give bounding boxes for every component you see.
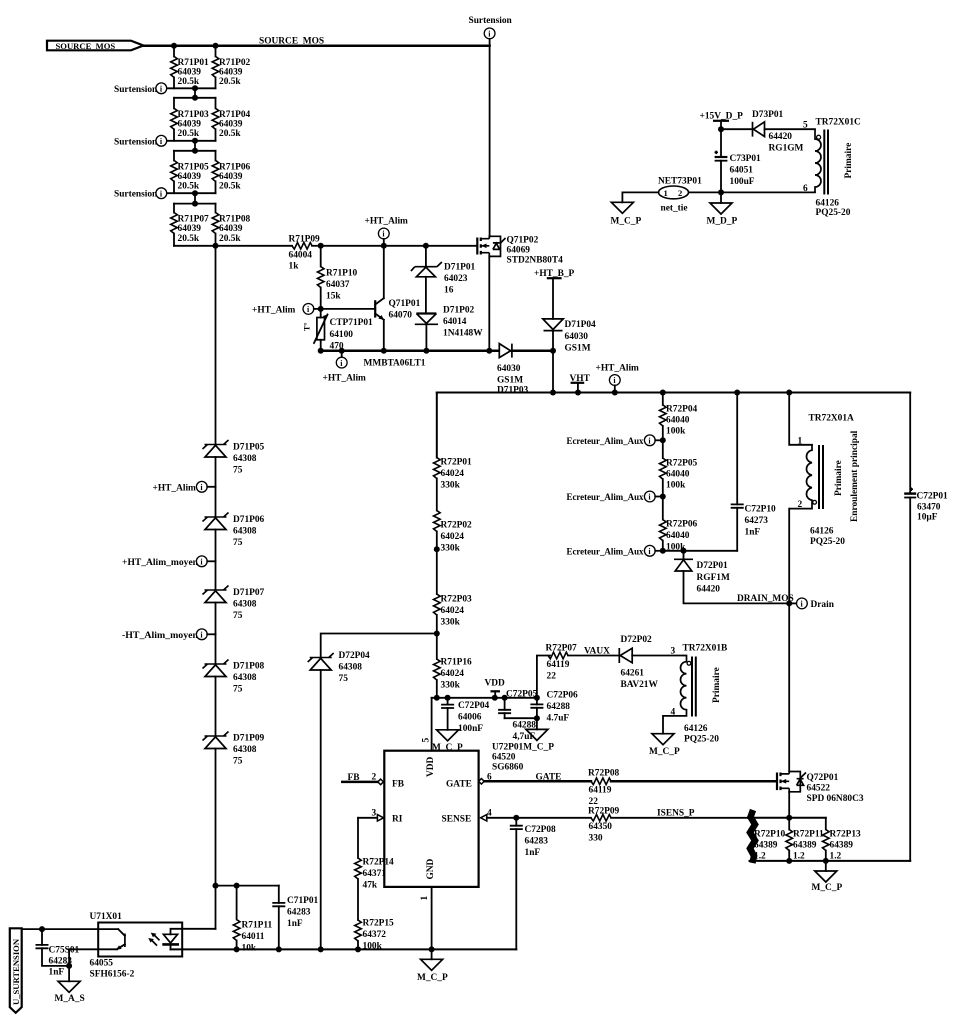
- svg-text:64308: 64308: [339, 663, 363, 673]
- svg-text:64024: 64024: [441, 606, 465, 616]
- svg-text:R71P16: R71P16: [441, 658, 473, 668]
- wire net tie left: [622, 192, 658, 202]
- ground M_C_P bottom: [417, 949, 448, 983]
- svg-text:Primaire: Primaire: [834, 460, 844, 496]
- zener D72P04: [308, 651, 370, 949]
- node Surtension 1: [114, 83, 167, 95]
- svg-text:NET73P01: NET73P01: [658, 177, 702, 187]
- diode D72P02: [619, 635, 683, 690]
- wire pair3 top bar: [174, 150, 216, 152]
- svg-text:C72P05: C72P05: [506, 690, 538, 700]
- svg-text:2: 2: [372, 773, 377, 783]
- svg-text:C75S01: C75S01: [49, 946, 80, 956]
- svg-text:1nF: 1nF: [525, 848, 541, 858]
- svg-text:Surtension: Surtension: [114, 137, 158, 147]
- svg-text:2: 2: [678, 188, 682, 198]
- node +HT_Alim top (Q71P02 area): [365, 217, 409, 246]
- zener D71P08: [203, 660, 265, 737]
- svg-text:TR72X01B: TR72X01B: [683, 644, 728, 654]
- svg-text:64069: 64069: [507, 246, 531, 256]
- wire Q72P01 source: [788, 792, 790, 818]
- zener D71P05: [203, 440, 265, 517]
- svg-text:64389: 64389: [793, 841, 817, 851]
- diode D71P03: [497, 344, 553, 396]
- svg-text:SOURCE_MOS: SOURCE_MOS: [56, 41, 116, 51]
- svg-text:D71P07: D71P07: [233, 588, 265, 598]
- svg-text:R72P13: R72P13: [830, 830, 862, 840]
- port SOURCE_MOS: [47, 41, 143, 51]
- svg-text:+HT_Alim: +HT_Alim: [252, 306, 296, 316]
- svg-text:100uF: 100uF: [730, 177, 755, 187]
- svg-text:R72P08: R72P08: [588, 769, 620, 779]
- svg-text:C72P01: C72P01: [917, 492, 949, 502]
- svg-text:64308: 64308: [233, 527, 257, 537]
- ground M_C_P under TR72X01B: [649, 716, 680, 757]
- capacitor C75S01: [36, 929, 80, 977]
- wire gate Q71P02: [321, 245, 477, 247]
- svg-text:1nF: 1nF: [49, 968, 65, 978]
- svg-text:R71P08: R71P08: [219, 215, 251, 225]
- svg-text:20.5k: 20.5k: [178, 77, 200, 87]
- wire trunk pin1: [789, 393, 812, 445]
- resistor R72P06: [660, 520, 698, 553]
- svg-text:64055: 64055: [90, 959, 114, 969]
- resistor R72P15: [355, 919, 394, 952]
- svg-text:Ecreteur_Alim_Aux: Ecreteur_Alim_Aux: [567, 493, 644, 503]
- svg-text:M_D_P: M_D_P: [707, 217, 738, 227]
- svg-text:75: 75: [233, 538, 243, 548]
- svg-text:1k: 1k: [289, 262, 300, 272]
- wire VDD rail: [432, 697, 537, 699]
- wire VHT rail: [437, 392, 910, 394]
- svg-text:R72P15: R72P15: [363, 919, 395, 929]
- svg-text:64039: 64039: [178, 120, 202, 130]
- resistor R71P02: [212, 46, 250, 89]
- svg-text:STD2NB80T4: STD2NB80T4: [507, 256, 564, 266]
- svg-text:64037: 64037: [326, 280, 350, 290]
- svg-text:64522: 64522: [807, 784, 831, 794]
- node C72P08 tap: [513, 815, 519, 821]
- svg-text:75: 75: [233, 611, 243, 621]
- svg-text:net_tie: net_tie: [661, 204, 688, 214]
- pin SENSE wire: [481, 809, 591, 822]
- svg-text:D72P01: D72P01: [697, 561, 729, 571]
- svg-text:75: 75: [233, 757, 243, 767]
- svg-text:M_A_S: M_A_S: [55, 994, 85, 1004]
- svg-text:Surtension: Surtension: [114, 85, 158, 95]
- svg-text:64039: 64039: [219, 68, 243, 78]
- svg-text:64039: 64039: [178, 172, 202, 182]
- resistor R71P01: [171, 46, 209, 89]
- svg-text:Q72P01: Q72P01: [807, 773, 839, 783]
- svg-text:PQ25-20: PQ25-20: [810, 537, 845, 547]
- wire ecreteur bottom: [663, 550, 737, 552]
- svg-text:64011: 64011: [242, 932, 265, 942]
- ground M_C_P under C72P04: [432, 730, 463, 753]
- svg-text:R72P11: R72P11: [793, 830, 824, 840]
- svg-text:FB: FB: [348, 773, 360, 783]
- svg-text:M_C_P: M_C_P: [649, 747, 680, 757]
- svg-text:64261: 64261: [621, 669, 645, 679]
- svg-text:64420: 64420: [769, 132, 793, 142]
- svg-text:64030: 64030: [565, 332, 589, 342]
- svg-text:U71X01: U71X01: [90, 912, 123, 922]
- svg-text:D71P08: D71P08: [233, 662, 265, 672]
- capacitor C72P08: [510, 818, 556, 950]
- wire port to opto: [22, 928, 119, 930]
- svg-text:RG1GM: RG1GM: [769, 144, 804, 154]
- svg-text:64004: 64004: [289, 251, 313, 261]
- ground M_A_S: [55, 949, 85, 1004]
- resistor R72P01: [434, 458, 473, 511]
- svg-text:Ecreteur_Alim_Aux: Ecreteur_Alim_Aux: [567, 437, 644, 447]
- svg-text:C72P10: C72P10: [745, 505, 777, 515]
- op-amp U72P01 box: [384, 751, 478, 887]
- svg-text:D71P05: D71P05: [233, 443, 265, 453]
- svg-text:D71P06: D71P06: [233, 515, 265, 525]
- power VDD: [485, 679, 506, 698]
- svg-text:64283: 64283: [525, 837, 549, 847]
- wire cap bottoms: [505, 717, 537, 719]
- svg-text:+HT_Alim: +HT_Alim: [153, 483, 197, 493]
- svg-text:64023: 64023: [444, 274, 468, 284]
- svg-text:1: 1: [420, 896, 430, 901]
- svg-text:R71P02: R71P02: [219, 58, 251, 68]
- svg-text:22: 22: [589, 797, 599, 807]
- resistor R71P11: [233, 886, 272, 954]
- svg-text:64126: 64126: [684, 724, 708, 734]
- wire Q71P02 source down: [488, 256, 490, 350]
- svg-text:R71P07: R71P07: [178, 215, 210, 225]
- node +HT_Alim_moyen: [122, 556, 216, 568]
- node Surtension 3: [114, 188, 167, 200]
- svg-text:D71P01: D71P01: [444, 263, 476, 273]
- svg-text:VAUX: VAUX: [584, 647, 610, 657]
- svg-text:Enroulement principal: Enroulement principal: [850, 430, 860, 522]
- wire pin 5 riser: [431, 698, 433, 751]
- resistor R72P10 (bold): [750, 810, 786, 863]
- ground M_C_P net tie: [611, 202, 642, 226]
- capacitor C73P01: [715, 129, 762, 192]
- svg-text:10k: 10k: [242, 944, 257, 954]
- svg-text:64119: 64119: [589, 786, 612, 796]
- resistor R72P13: [823, 818, 862, 862]
- svg-text:64308: 64308: [233, 745, 257, 755]
- svg-text:R72P06: R72P06: [666, 520, 698, 530]
- svg-text:R72P10: R72P10: [754, 830, 786, 840]
- wire sense top bar: [748, 817, 826, 819]
- svg-text:4: 4: [487, 809, 492, 819]
- node R71P09/R71P10: [318, 243, 324, 249]
- svg-text:64039: 64039: [219, 120, 243, 130]
- svg-text:1: 1: [798, 437, 803, 447]
- svg-text:D73P01: D73P01: [752, 110, 784, 120]
- pin FB stub: [342, 773, 383, 785]
- svg-text:VDD: VDD: [485, 679, 506, 689]
- capacitor C71P01: [272, 886, 318, 950]
- svg-text:D71P03: D71P03: [497, 386, 529, 396]
- resistor R72P08: [588, 769, 777, 808]
- wire R71P11 top rail: [216, 885, 279, 887]
- svg-text:75: 75: [233, 685, 243, 695]
- svg-text:R72P03: R72P03: [441, 595, 473, 605]
- resistor R71P10: [317, 246, 357, 309]
- svg-text:GATE: GATE: [446, 780, 472, 790]
- svg-text:64024: 64024: [441, 669, 465, 679]
- svg-text:R71P03: R71P03: [178, 110, 210, 120]
- svg-text:SOURCE MOS: SOURCE MOS: [259, 37, 324, 47]
- node Ecreteur_Alim_Aux 2: [567, 491, 666, 503]
- svg-text:+HT_Alim: +HT_Alim: [323, 374, 367, 384]
- svg-text:20.5k: 20.5k: [219, 77, 241, 87]
- node Surtension 2: [114, 135, 167, 147]
- svg-text:C72P06: C72P06: [547, 691, 579, 701]
- node +HT_Alim chain: [153, 481, 216, 493]
- svg-text:1: 1: [664, 188, 668, 198]
- svg-text:R72P14: R72P14: [363, 858, 395, 868]
- svg-text:100k: 100k: [666, 481, 686, 491]
- svg-text:Surtension: Surtension: [114, 190, 158, 200]
- svg-text:SENSE: SENSE: [442, 815, 472, 825]
- svg-text:Primaire: Primaire: [712, 667, 722, 703]
- net tie NET73P01: [658, 177, 702, 214]
- svg-text:64389: 64389: [830, 841, 854, 851]
- svg-text:Q71P01: Q71P01: [389, 299, 421, 309]
- svg-text:47k: 47k: [363, 881, 378, 891]
- resistor R72P02: [434, 511, 473, 554]
- wire pair4 bottom bar: [174, 245, 216, 247]
- svg-text:75: 75: [233, 466, 243, 476]
- svg-text:16: 16: [444, 286, 454, 296]
- svg-text:64308: 64308: [233, 600, 257, 610]
- svg-text:20.5k: 20.5k: [178, 234, 200, 244]
- wire link pair1-pair2: [194, 88, 196, 98]
- svg-text:64070: 64070: [389, 311, 413, 321]
- svg-text:3: 3: [671, 647, 676, 657]
- svg-text:+HT_Alim_moyen: +HT_Alim_moyen: [122, 558, 199, 568]
- power VHT: [570, 374, 591, 393]
- svg-text:GS1M: GS1M: [497, 376, 523, 386]
- svg-text:TR72X01C: TR72X01C: [816, 118, 862, 128]
- svg-text:M_C_P: M_C_P: [611, 217, 642, 227]
- svg-text:U72P01M_C_P: U72P01M_C_P: [492, 743, 554, 753]
- svg-text:Drain: Drain: [811, 600, 835, 610]
- transistor Q71P01: [375, 246, 420, 351]
- svg-text:GND: GND: [426, 858, 436, 879]
- resistor R71P03: [171, 98, 209, 141]
- svg-text:PQ25-20: PQ25-20: [684, 735, 719, 745]
- svg-text:4,7uF: 4,7uF: [513, 732, 536, 742]
- svg-text:64006: 64006: [458, 713, 482, 723]
- svg-text:+HT_Alim: +HT_Alim: [596, 364, 640, 374]
- svg-text:T°: T°: [303, 322, 312, 331]
- wire pair1 bottom bar: [167, 87, 216, 89]
- svg-text:5: 5: [803, 121, 808, 131]
- node +HT_Alim left: [252, 304, 321, 316]
- svg-text:R71P06: R71P06: [219, 163, 251, 173]
- svg-text:64039: 64039: [178, 224, 202, 234]
- svg-text:C72P08: C72P08: [525, 825, 557, 835]
- wire chain column upper: [215, 246, 217, 445]
- svg-text:D71P02: D71P02: [443, 306, 475, 316]
- svg-text:RGF1M: RGF1M: [697, 573, 730, 583]
- resistor R71P08: [212, 204, 250, 246]
- svg-text:D71P04: D71P04: [565, 320, 597, 330]
- pin GATE wire: [479, 773, 591, 785]
- svg-text:R72P07: R72P07: [546, 644, 578, 654]
- optocoupler U71X01: [69, 912, 215, 980]
- capacitor C72P01: [904, 393, 948, 861]
- power +HT_B_P: [534, 269, 575, 319]
- capacitor C72P05: [498, 690, 537, 743]
- diode D72P01: [674, 551, 789, 604]
- diode D71P04: [543, 319, 596, 393]
- resistor R72P14: [355, 818, 394, 920]
- svg-text:4: 4: [671, 708, 676, 718]
- svg-text:1nF: 1nF: [745, 528, 761, 538]
- wire branch to D72P04: [321, 634, 437, 658]
- wire sense bottom bar: [750, 860, 911, 862]
- svg-text:64420: 64420: [697, 585, 721, 595]
- svg-text:MMBTA06LT1: MMBTA06LT1: [364, 359, 426, 369]
- resistor R71P16: [434, 634, 473, 698]
- svg-text:64371: 64371: [363, 869, 387, 879]
- svg-text:C73P01: C73P01: [730, 154, 762, 164]
- wire link pair2-pair3: [194, 141, 196, 151]
- wire base Q71P01: [321, 308, 376, 310]
- zener D71P01: [411, 246, 476, 314]
- svg-text:64119: 64119: [547, 660, 570, 670]
- svg-text:R71P09: R71P09: [289, 235, 321, 245]
- svg-text:64126: 64126: [810, 527, 834, 537]
- svg-text:20.5k: 20.5k: [178, 129, 200, 139]
- resistor R71P09: [289, 235, 321, 272]
- svg-text:BAV21W: BAV21W: [621, 680, 659, 690]
- svg-text:D71P09: D71P09: [233, 734, 265, 744]
- svg-text:Surtension: Surtension: [469, 16, 513, 26]
- wire Q71P01 bottom rail: [321, 350, 498, 353]
- ground M_D_P: [707, 192, 738, 226]
- svg-text:C71P01: C71P01: [287, 896, 319, 906]
- svg-text:3: 3: [372, 809, 377, 819]
- node -HT_Alim_moyen: [122, 629, 216, 641]
- svg-text:64030: 64030: [497, 364, 521, 374]
- capacitor C72P04: [441, 698, 489, 734]
- svg-text:2: 2: [798, 500, 803, 510]
- svg-text:330k: 330k: [441, 544, 461, 554]
- wire C72P06 column to VAUX: [537, 656, 550, 698]
- svg-text:64024: 64024: [441, 532, 465, 542]
- svg-text:64308: 64308: [233, 673, 257, 683]
- svg-text:M_C_P: M_C_P: [417, 973, 448, 983]
- svg-text:C72P04: C72P04: [458, 701, 490, 711]
- svg-text:DRAIN_MOS: DRAIN_MOS: [737, 594, 794, 604]
- svg-text:R71P05: R71P05: [178, 163, 210, 173]
- wire pair3 bottom bar: [167, 192, 216, 194]
- svg-text:64520: 64520: [492, 753, 516, 763]
- wire trunk pin2 to Q72P01: [788, 509, 790, 772]
- svg-text:1N4148W: 1N4148W: [443, 329, 483, 339]
- zener D71P06: [203, 513, 265, 591]
- resistor R72P11: [786, 818, 824, 862]
- svg-text:R72P02: R72P02: [441, 521, 473, 531]
- transformer TR72X01B: [663, 644, 727, 745]
- svg-text:64039: 64039: [219, 224, 243, 234]
- svg-text:10µF: 10µF: [917, 513, 938, 523]
- resistor R72P04: [660, 393, 698, 459]
- svg-text:64024: 64024: [441, 469, 465, 479]
- power +15V_D_P: [700, 112, 744, 133]
- svg-text:SFH6156-2: SFH6156-2: [90, 970, 135, 980]
- thermistor CTP71P01: [303, 309, 374, 352]
- svg-text:SG6860: SG6860: [492, 763, 524, 773]
- resistor R72P09: [588, 807, 748, 844]
- wire link pair3-pair4: [194, 193, 196, 203]
- svg-text:64389: 64389: [754, 841, 778, 851]
- svg-text:64126: 64126: [816, 199, 840, 209]
- svg-text:75: 75: [339, 674, 349, 684]
- ground M_C_P under C72P05/06: [526, 718, 548, 740]
- node Surtension top: [469, 16, 513, 46]
- svg-text:VDD: VDD: [426, 756, 436, 777]
- MOSFET Q72P01: [777, 772, 864, 805]
- transformer TR72X01A: [789, 414, 860, 548]
- svg-text:R71P10: R71P10: [326, 269, 358, 279]
- svg-text:63470: 63470: [917, 503, 941, 513]
- svg-text:PQ25-20: PQ25-20: [816, 208, 851, 218]
- node R72P03/R71P16: [434, 631, 440, 637]
- diode D71P02: [415, 306, 483, 351]
- svg-text:SPD 06N80C3: SPD 06N80C3: [807, 794, 864, 804]
- wire bottom ground rail: [171, 948, 517, 950]
- svg-text:R72P09: R72P09: [588, 807, 620, 817]
- wire pair2 top bar: [174, 97, 216, 99]
- node junction pair top: [171, 43, 177, 49]
- wire pin6 net: [689, 191, 816, 193]
- svg-text:TR72X01A: TR72X01A: [809, 414, 855, 424]
- wire pair2 bottom bar: [167, 140, 216, 142]
- svg-text:FB: FB: [392, 780, 404, 790]
- svg-text:R72P01: R72P01: [441, 458, 473, 468]
- svg-text:RI: RI: [392, 815, 403, 825]
- wire SOURCE MOS top: [143, 44, 489, 47]
- capacitor C72P06: [530, 691, 578, 724]
- svg-text:U_SURTENSION: U_SURTENSION: [11, 938, 21, 1005]
- svg-text:20.5k: 20.5k: [178, 182, 200, 192]
- svg-text:64039: 64039: [219, 172, 243, 182]
- svg-text:Q71P02: Q71P02: [507, 236, 539, 246]
- svg-text:64040: 64040: [666, 416, 690, 426]
- svg-text:64040: 64040: [666, 531, 690, 541]
- svg-text:330k: 330k: [441, 618, 461, 628]
- svg-text:CTP71P01: CTP71P01: [330, 318, 374, 328]
- wire VHT rail corner down: [436, 393, 438, 458]
- wire GND pin 1: [431, 887, 433, 950]
- svg-text:1nF: 1nF: [287, 919, 303, 929]
- svg-text:64372: 64372: [363, 930, 387, 940]
- svg-text:64288: 64288: [547, 702, 571, 712]
- node R72P02/R72P03 branch left: [434, 546, 440, 552]
- svg-text:-HT_Alim_moyen: -HT_Alim_moyen: [122, 631, 199, 641]
- capacitor C72P10: [731, 393, 776, 551]
- svg-text:64014: 64014: [443, 317, 467, 327]
- svg-text:R71P01: R71P01: [178, 58, 210, 68]
- wire drain column Q71P02: [489, 46, 491, 237]
- ground M_C_P sense: [812, 861, 843, 893]
- node +HT_Alim on rail: [596, 364, 640, 393]
- wire pair4 top bar: [174, 203, 216, 205]
- wire chain to R71P09: [216, 245, 293, 247]
